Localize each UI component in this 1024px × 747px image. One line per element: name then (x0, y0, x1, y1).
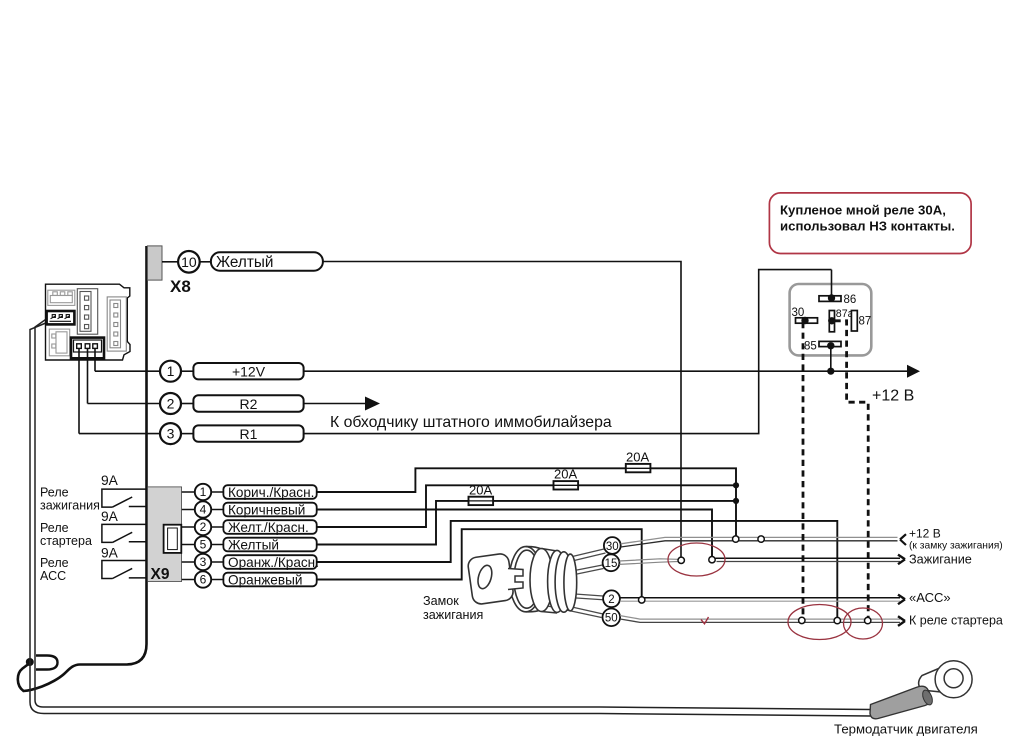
wire R1 to relay coil pin 86 (304, 270, 832, 434)
svg-text:10: 10 (181, 254, 197, 270)
red mark ellipse (starter cut right) (844, 608, 883, 639)
relay contact: Реле стартера, fuse 9A (102, 524, 146, 542)
harness wire upper (to thermal sensor) (35, 319, 870, 710)
svg-text:Зажигание: Зажигание (909, 553, 972, 567)
svg-text:4: 4 (200, 503, 207, 517)
connector J2 (bold, left) (47, 311, 75, 324)
svg-text:Корич./Красн.: Корич./Красн. (228, 485, 314, 500)
PCB connector block outline (46, 284, 131, 360)
svg-text:Реле: Реле (40, 556, 69, 570)
wire label Корич./Красн. (X9-1) (223, 485, 316, 500)
pin X9-6 (195, 571, 211, 587)
svg-text:К обходчику штатного иммобилай: К обходчику штатного иммобилайзера (330, 414, 612, 431)
relay pin 87 (851, 311, 857, 332)
svg-text:Оранж./Красн.: Оранж./Красн. (228, 555, 319, 570)
cut pin starter 2 (834, 617, 840, 623)
wire label Оранж./Красн. (X9-3) (223, 555, 319, 570)
svg-text:Купленое мной реле 30А,: Купленое мной реле 30А, (780, 203, 946, 218)
svg-text:X9: X9 (151, 566, 170, 583)
wire pin10 to label box (200, 261, 211, 263)
wire relay 85 to +12V line (830, 346, 832, 371)
red mark ellipse (starter cut left) (788, 605, 851, 640)
wire label Желтый (X8-10) (211, 252, 323, 270)
svg-text:зажигания: зажигания (423, 608, 483, 622)
svg-text:9A: 9A (101, 545, 119, 560)
svg-text:Желтый: Желтый (228, 537, 279, 552)
note box (red) (769, 193, 971, 254)
svg-text:зажигания: зажигания (40, 499, 100, 513)
svg-text:стартера: стартера (40, 534, 92, 548)
svg-text:+12 В: +12 В (872, 388, 914, 405)
junction dot relay 85 / +12V (827, 368, 834, 375)
node pin 15/yellow (678, 557, 684, 563)
svg-text:R2: R2 (240, 396, 258, 412)
wire label Оранжевый (X9-6) (223, 572, 316, 587)
svg-text:Термодатчик двигателя: Термодатчик двигателя (834, 722, 978, 737)
svg-text:20A: 20A (626, 450, 649, 465)
relay contact: Реле зажигания, fuse 9A (102, 489, 146, 507)
svg-text:20A: 20A (554, 467, 577, 482)
svg-text:15: 15 (605, 558, 618, 570)
alarm module outline (18, 246, 147, 691)
open arrow АСС (898, 595, 905, 605)
wire X9-1 (Корич./Красн.) via fuse 20A to cut point (317, 468, 736, 536)
junction dot fuse line 3 (733, 498, 739, 504)
wire terminal 15 to node (double) (619, 559, 678, 565)
pin X9-5 (195, 536, 211, 552)
cut pin starter 3 (865, 617, 871, 623)
dashed wire relay 30 to starter cut (802, 322, 805, 617)
svg-text:Желт./Красн.: Желт./Красн. (228, 520, 309, 535)
svg-text:2: 2 (167, 396, 175, 412)
terminal 15 (603, 554, 620, 571)
harness wire lower (to thermal sensor) (30, 323, 871, 717)
junction dot fuse line 2 (733, 482, 739, 488)
svg-text:9A: 9A (101, 509, 119, 524)
cut pin starter 1 (799, 617, 805, 623)
wire label Желт./Красн. (X9-2) (223, 520, 316, 535)
node pin ACC junction (639, 597, 645, 603)
wire Зажигание (double) (715, 557, 900, 559)
connector J3 (middle tall) (77, 289, 97, 335)
svg-text:86: 86 (844, 294, 857, 306)
wire label Желтый (X9-5) (223, 537, 316, 552)
svg-text:Реле: Реле (40, 521, 69, 535)
svg-text:+12 В: +12 В (909, 527, 941, 541)
svg-text:5: 5 (200, 538, 207, 552)
ignition switch cylinder (510, 547, 577, 613)
wire X9-4 (Коричневый) to Зажигание cut point (317, 510, 712, 557)
X9 keying notch (164, 525, 182, 553)
svg-text:Оранжевый: Оранжевый (228, 572, 302, 587)
cut pin on +12V feed (733, 536, 739, 542)
pin X9-1 (195, 484, 211, 500)
pin 10 circle (178, 251, 200, 273)
terminal 2 (603, 590, 620, 607)
relay contact: Реле АСС, fuse 9A (102, 561, 146, 579)
switch contact wires to terminals (539, 549, 606, 618)
fuse 20A (middle) (554, 481, 579, 489)
cut pin on +12V feed 2 (758, 536, 764, 542)
svg-text:(к замку зажигания): (к замку зажигания) (909, 540, 1003, 551)
wire X9-2 (Желт./Красн.) via fuse 20A (317, 485, 736, 527)
wire relay 86 up (831, 270, 833, 298)
svg-text:30: 30 (606, 541, 619, 553)
terminal 30 (604, 537, 621, 554)
svg-text:Реле: Реле (40, 486, 69, 500)
svg-text:2: 2 (200, 520, 207, 534)
wire +12V to relay area arrow (304, 370, 909, 372)
svg-text:К реле стартера: К реле стартера (909, 614, 1003, 628)
svg-text:X8: X8 (170, 277, 191, 296)
svg-text:Замок: Замок (423, 594, 459, 608)
relay pin 86 (819, 296, 841, 302)
wire label R1 (193, 425, 303, 441)
wire X9-3 (Оранж./Красн.) to starter cut point (317, 521, 838, 618)
wire X9-6 (Оранжевый) to ACC node (317, 529, 642, 597)
svg-text:1: 1 (167, 363, 175, 379)
svg-text:использовал НЗ контакты.: использовал НЗ контакты. (780, 219, 955, 234)
connector J5 (bottom-left) (49, 329, 69, 356)
open arrow К реле стартера (898, 616, 905, 626)
svg-text:R1: R1 (240, 426, 258, 442)
connector J4 (right tall) (107, 297, 126, 351)
connector X8 body (147, 246, 162, 280)
wire label Коричневый (X9-4) (223, 502, 316, 517)
relay pin 87a (829, 311, 834, 332)
wire label R2 (193, 395, 303, 411)
key blade (508, 569, 523, 590)
wire К реле стартера (double) (620, 616, 900, 620)
svg-text:3: 3 (167, 426, 175, 442)
svg-text:2: 2 (608, 594, 614, 606)
pin 1 circle (160, 361, 181, 382)
key head hole (476, 564, 495, 591)
wire X9-5 (Желтый) via fuse 20A (317, 501, 736, 545)
wire X8 stub to pin 10 (162, 261, 178, 263)
svg-text:«АСС»: «АСС» (909, 590, 951, 605)
wire terminal 30 to +12V feed line (double) (621, 537, 898, 543)
svg-text:6: 6 (200, 573, 207, 587)
ignition switch key head (467, 553, 514, 605)
svg-text:1: 1 (200, 485, 207, 499)
svg-text:85: 85 (804, 341, 817, 353)
connector J6 (bottom bold, 3 pins) (71, 338, 104, 359)
thermo sensor sleeve (870, 686, 932, 719)
junction blob on harness (26, 658, 34, 666)
arrow +12 V (907, 365, 920, 378)
relay U1 body (790, 284, 872, 355)
thermo sensor ring terminal (919, 668, 941, 693)
pin X9-3 (195, 554, 211, 570)
pin X9-2 (195, 519, 211, 535)
svg-text:+12V: +12V (232, 364, 266, 380)
dashed wire relay 87a to starter cut (835, 321, 869, 617)
connector J1 (top-left) (48, 290, 75, 305)
wire from Желтый box to ignition node (323, 262, 681, 557)
wire to pin 1 (95, 370, 160, 372)
pin 2 circle (88, 403, 161, 405)
svg-text:50: 50 (605, 613, 618, 625)
svg-text:Желтый: Желтый (216, 254, 273, 271)
node pin ignition feed (709, 557, 715, 563)
open arrow +12 В (к замку зажигания) (900, 534, 906, 545)
red check mark on starter wire (701, 617, 709, 624)
wire АСС (double) (620, 597, 900, 599)
svg-text:3: 3 (200, 555, 207, 569)
svg-text:20A: 20A (469, 482, 492, 497)
stubs pins to boxes (211, 492, 223, 580)
pin X9-4 (195, 501, 211, 517)
svg-text:Коричневый: Коричневый (228, 502, 305, 517)
fuse 20A (top) (626, 464, 651, 472)
X9 pin stubs (182, 492, 195, 580)
svg-text:9A: 9A (101, 473, 119, 488)
svg-text:АСС: АСС (40, 569, 66, 583)
connector X9 body (148, 487, 182, 582)
pin 3 circle (79, 433, 160, 435)
red mark ellipse (15/ignition node) (668, 543, 725, 576)
open arrow Зажигание (898, 555, 905, 565)
wire label +12V (193, 363, 303, 379)
wires from J6 pins to outputs 1,2,3 (79, 348, 95, 433)
svg-text:87: 87 (859, 316, 872, 328)
wire loop tab (36, 656, 58, 670)
R2 arrow to immobilizer bypass (304, 403, 366, 405)
terminal 50 (603, 609, 621, 627)
fuse 20A (lower) (469, 497, 494, 505)
